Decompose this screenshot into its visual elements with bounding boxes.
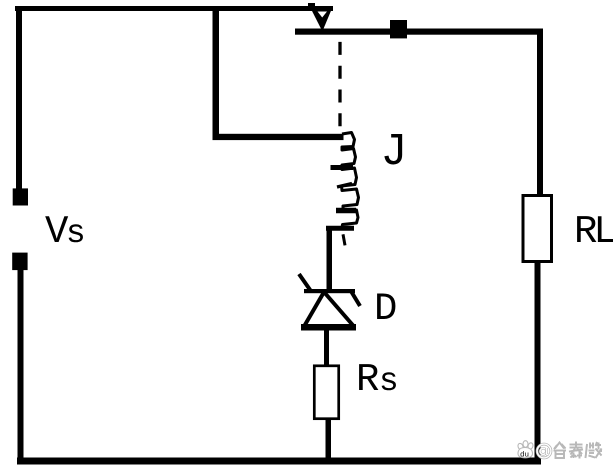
svg-text:RL: RL xyxy=(574,210,613,254)
svg-text:Vs: Vs xyxy=(45,210,86,254)
svg-text:J: J xyxy=(381,127,408,178)
svg-text:du: du xyxy=(520,452,529,460)
svg-text:Rs: Rs xyxy=(356,358,399,402)
svg-text:D: D xyxy=(374,287,397,331)
